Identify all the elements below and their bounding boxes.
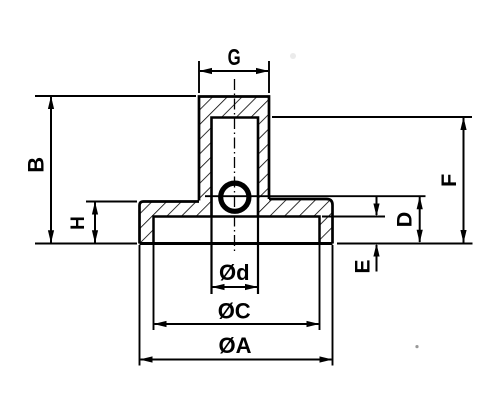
svg-text:ØC: ØC	[218, 298, 251, 323]
dimension OeA line	[141, 359, 332, 361]
svg-text:E: E	[352, 259, 375, 273]
svg-text:G: G	[228, 46, 241, 71]
svg-text:B: B	[23, 157, 48, 173]
dimension H extension line	[86, 201, 137, 203]
dimension H line	[94, 203, 96, 243]
svg-text:ØA: ØA	[219, 333, 252, 358]
hatch region: flange left L-shape	[140, 201, 212, 244]
dimension E stems and arrows	[376, 197, 378, 216]
OeC extension lines	[153, 245, 155, 330]
svg-text:Ød: Ød	[219, 260, 250, 285]
dimension D line	[419, 197, 421, 242]
dimension B extension lines	[35, 95, 196, 97]
ball circle	[221, 183, 249, 211]
speck	[415, 345, 418, 348]
dimension Oed line	[213, 286, 258, 288]
svg-text:H: H	[68, 216, 89, 230]
line through ball extending right	[205, 195, 426, 197]
svg-text:F: F	[437, 174, 461, 187]
hatch region: flange right L-shape	[258, 199, 333, 244]
hatch region: hub upper band	[199, 97, 269, 201]
dimension G extension lines	[198, 61, 200, 93]
svg-text:D: D	[393, 212, 417, 228]
dimension OeC line	[155, 323, 319, 325]
part outline: flange top left	[140, 202, 200, 244]
part outline: recess	[154, 217, 320, 244]
dimension E extension line (recess)	[322, 216, 385, 218]
dimension B line	[50, 97, 52, 243]
dimension F extension lines	[272, 116, 472, 118]
Oed extension lines	[210, 217, 212, 295]
center line	[234, 79, 236, 254]
dimension G line	[200, 70, 268, 72]
part outline: hub	[199, 97, 269, 201]
part outline: flange bottom	[140, 242, 333, 245]
faint smudge	[290, 53, 296, 59]
dimension F line	[463, 118, 465, 243]
part outline: hub blind hole	[212, 118, 259, 217]
part outline: flange top right	[269, 199, 333, 244]
OeA extension lines	[139, 245, 141, 366]
